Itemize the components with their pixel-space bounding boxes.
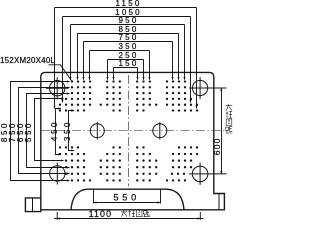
dimension 250 (top) bbox=[108, 60, 144, 80]
hole group: bottom-right inner M20 holes bbox=[136, 146, 157, 181]
svg-text:950: 950 bbox=[119, 16, 139, 25]
svg-text:150: 150 bbox=[119, 59, 139, 68]
dimension 750 (top) bbox=[84, 42, 173, 80]
platen outline bbox=[25, 72, 224, 211]
label 大柱内距 (tie-bar inner distance note) bbox=[226, 104, 233, 133]
dimension 550 (bottom) bbox=[94, 190, 161, 204]
dimension 1100 tie-bar spacing (bottom) bbox=[54, 212, 204, 220]
dimension 600 (right) bbox=[221, 88, 223, 174]
svg-text:450: 450 bbox=[50, 120, 59, 141]
svg-text:350: 350 bbox=[119, 42, 139, 51]
dimension 750 (left) bbox=[19, 88, 70, 174]
svg-text:750: 750 bbox=[119, 33, 139, 42]
horizontal centerline (dash-dot) bbox=[41, 130, 225, 132]
hole group: bottom-right outer M20 holes bbox=[166, 146, 198, 181]
hole group: top-left outer M20 holes bbox=[59, 80, 91, 111]
svg-text:152XM20X40L: 152XM20X40L bbox=[0, 56, 55, 65]
right foot inner line bbox=[218, 194, 220, 210]
dimension 550 (left) bbox=[35, 99, 64, 161]
hole group: top-right outer M20 holes bbox=[166, 80, 198, 111]
tie-bar hole bottom-right bbox=[189, 163, 227, 185]
center hole left bbox=[90, 122, 104, 140]
svg-text:550: 550 bbox=[24, 121, 33, 142]
dimension 150 (top) bbox=[114, 68, 138, 80]
tie-bar hole top-right bbox=[189, 77, 227, 99]
tie-bar hole top-left bbox=[46, 77, 69, 99]
svg-text:1150: 1150 bbox=[115, 0, 141, 8]
label 大柱间距 (tie-bar spacing note) bbox=[121, 210, 150, 217]
svg-text:600: 600 bbox=[212, 137, 222, 155]
dimension 650 (left) bbox=[27, 94, 70, 168]
vertical centerline (dash-dot) bbox=[128, 75, 130, 187]
hole group: top-left inner M20 holes bbox=[100, 80, 121, 111]
tie-bar hole bottom-left bbox=[46, 163, 69, 185]
hole group: bottom-left outer M20 holes bbox=[59, 146, 91, 181]
hole group: top-right inner M20 holes bbox=[136, 80, 157, 111]
dimension 1050 (top) bbox=[63, 17, 191, 103]
dimension 350 (inner vertical) bbox=[69, 111, 75, 151]
dimension 850 (left) bbox=[11, 82, 70, 181]
hole group: bottom-left inner M20 holes bbox=[100, 146, 121, 181]
svg-text:1100: 1100 bbox=[89, 209, 111, 219]
svg-text:350: 350 bbox=[63, 120, 72, 141]
center hole right bbox=[153, 122, 167, 140]
dimension 850 (top) bbox=[78, 34, 179, 80]
dimension 350 (top) bbox=[90, 51, 150, 80]
bottom edge under arch bbox=[71, 209, 184, 211]
left foot inner line bbox=[32, 198, 34, 212]
svg-text:550: 550 bbox=[113, 193, 136, 203]
dimension 450 (inner vertical) bbox=[56, 109, 62, 155]
dimension 950 (top) bbox=[71, 25, 185, 80]
dimension 1150 (top) bbox=[55, 8, 197, 109]
